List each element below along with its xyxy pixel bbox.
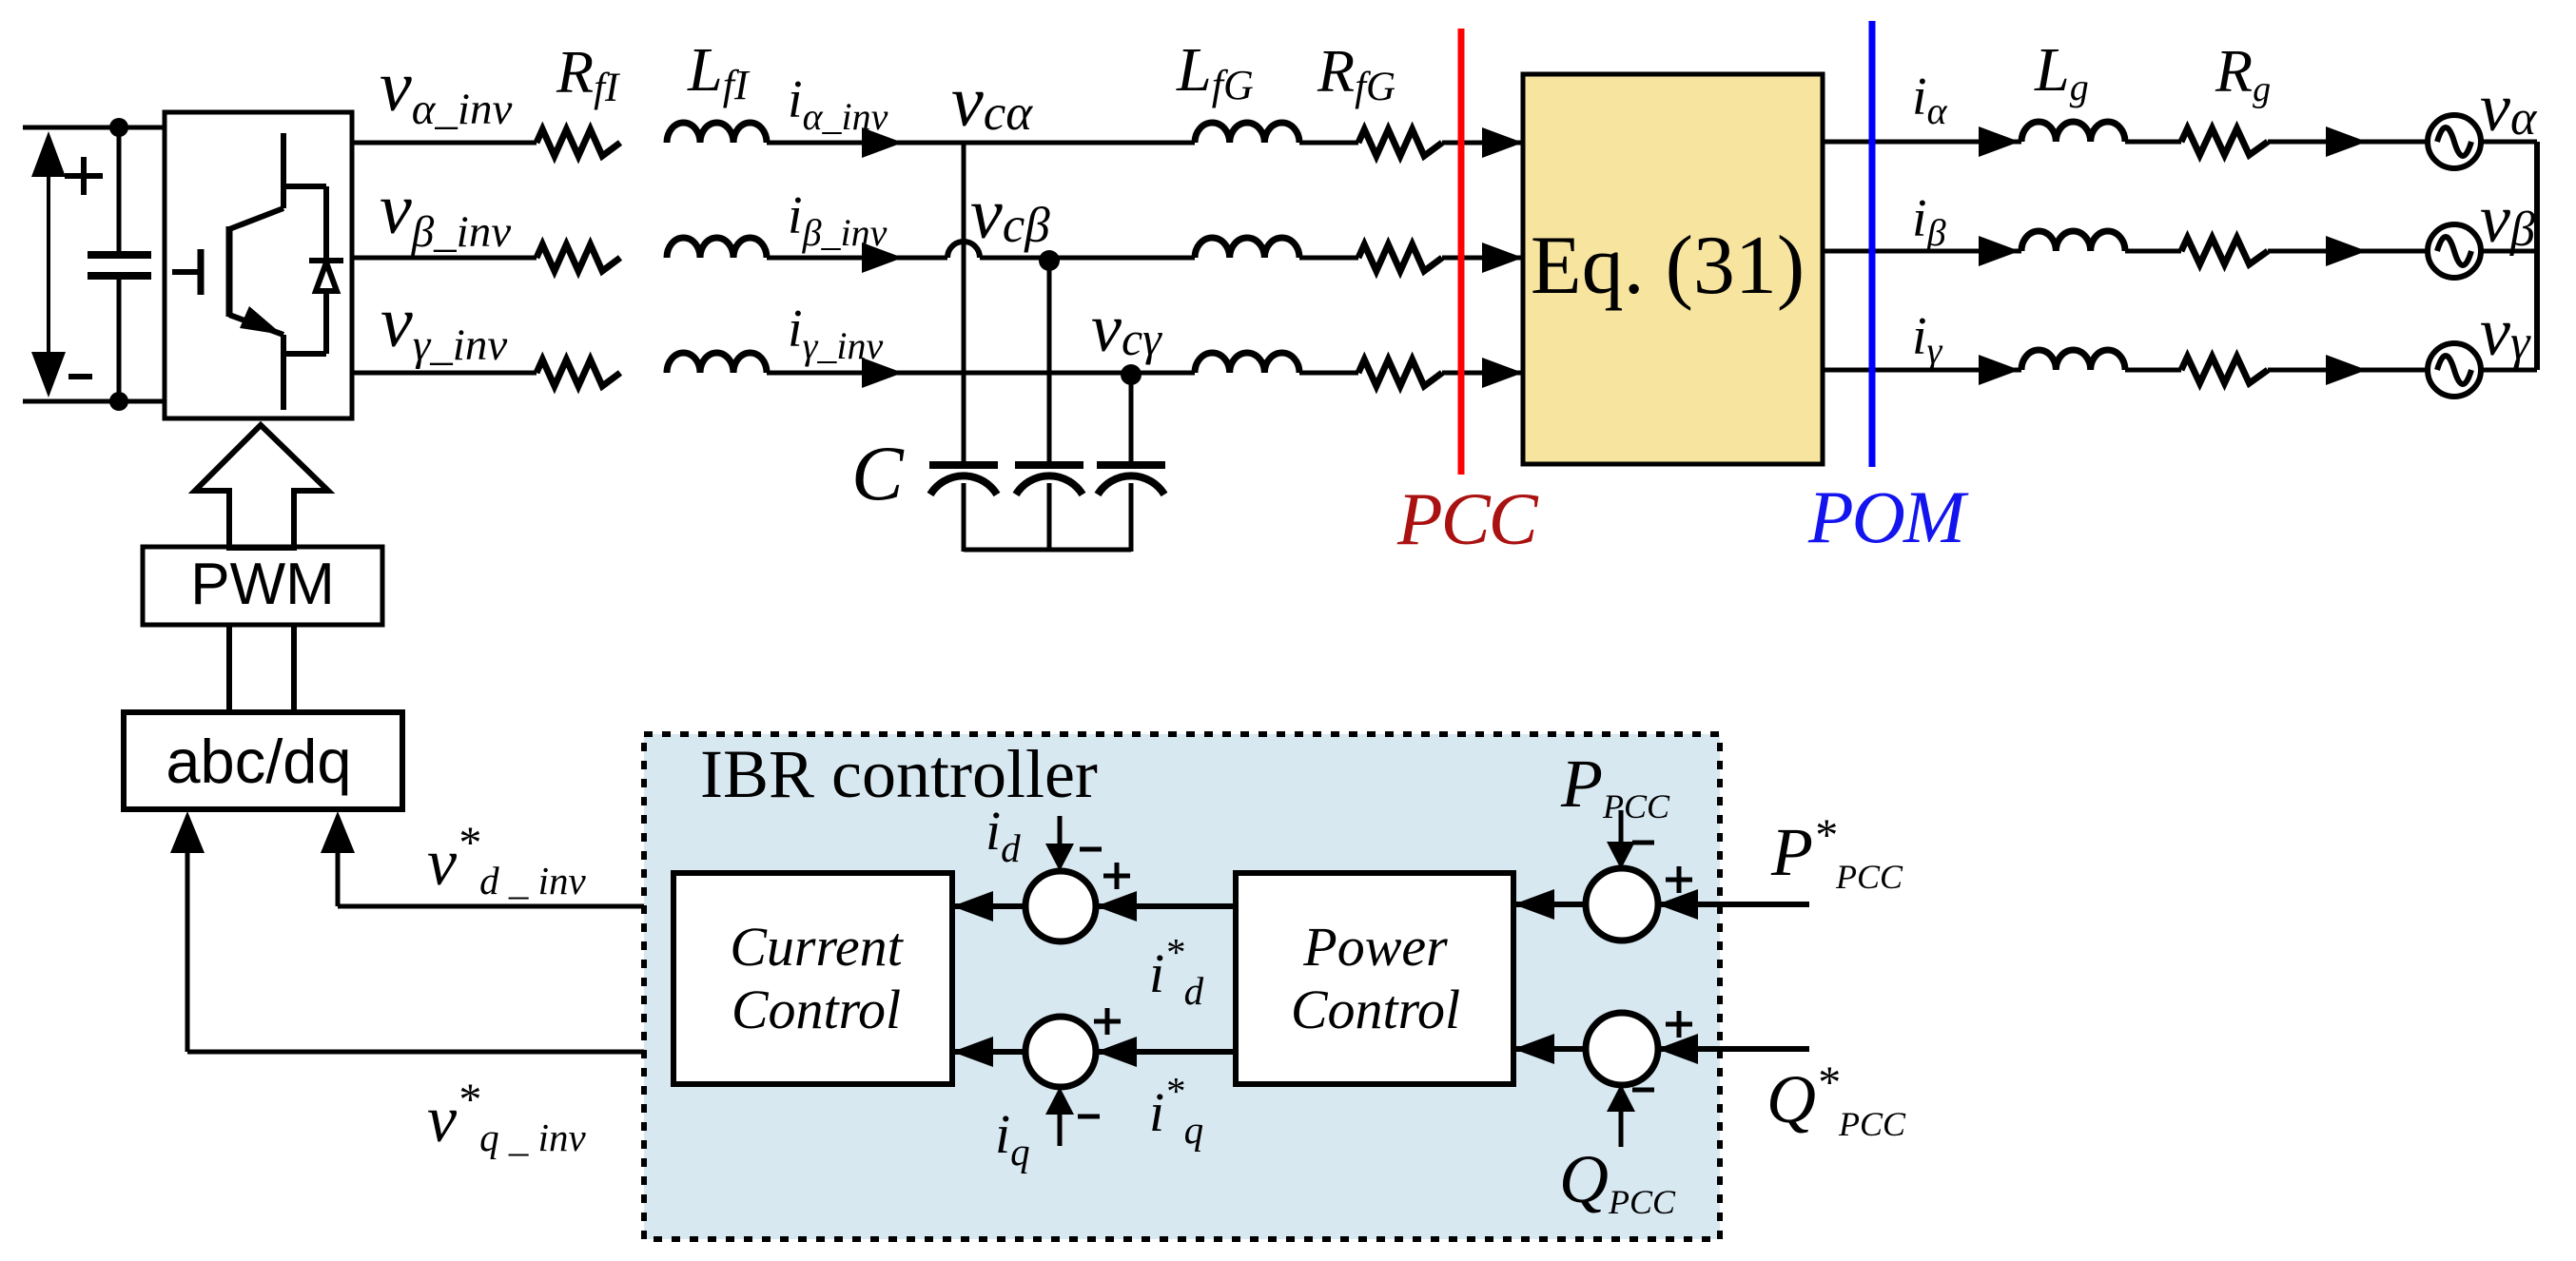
svg-text:Eq. (31): Eq. (31) — [1531, 220, 1805, 312]
block abc/dq — [124, 712, 402, 809]
svg-text:vcγ: vcγ — [1091, 290, 1162, 366]
wire: inverter output alpha — [352, 141, 537, 145]
svg-text:iγ: iγ — [1912, 307, 1943, 372]
svg-text:Rg: Rg — [2215, 37, 2271, 109]
wire: gamma to filter node — [767, 371, 1195, 376]
DC-link voltage measuring arrow — [47, 152, 50, 380]
svg-text:vβ_inv: vβ_inv — [380, 169, 511, 257]
svg-text:LfI: LfI — [687, 35, 751, 108]
wire: DC bus bottom — [23, 399, 165, 404]
inductor Lg (beta) — [2021, 231, 2125, 251]
svg-text:Lg: Lg — [2034, 35, 2089, 108]
label plus at sum3 — [1666, 878, 1692, 883]
svg-text:Q*PCC: Q*PCC — [1766, 1057, 1906, 1143]
svg-text:vcα: vcα — [951, 62, 1033, 142]
wire: sum4 to Power Control — [1513, 1046, 1587, 1052]
wire: alpha to filter node — [767, 141, 1195, 145]
wire: beta column down to capacitor — [1047, 258, 1052, 465]
wire: Q* reference into sum4 — [1657, 1046, 1809, 1052]
svg-text:vβ: vβ — [2480, 181, 2535, 257]
label: - polarity — [68, 374, 92, 379]
node v_c_gamma — [1121, 364, 1142, 385]
AC source v_alpha — [2428, 115, 2481, 168]
wire: DC bus top — [23, 126, 165, 130]
capacitor C (alpha) — [929, 461, 998, 469]
AC source v_gamma — [2428, 343, 2481, 397]
svg-text:iα: iα — [1912, 68, 1948, 132]
current arrow i_alpha_inv — [862, 127, 903, 158]
summing junction sum2 (q-axis) — [1025, 1017, 1096, 1087]
wire: P* reference into sum3 — [1657, 902, 1809, 907]
wire: inverter output gamma — [352, 371, 537, 376]
resistor RfI (gamma) — [537, 359, 620, 386]
arrow i_d into sum1 — [1058, 816, 1063, 846]
wire: beta RfG to Eq block — [1442, 256, 1523, 261]
svg-text:C: C — [851, 430, 905, 516]
svg-text:vα: vα — [2480, 69, 2538, 145]
arrow into abc/dq (q-axis) — [170, 811, 205, 853]
resistor Rg (alpha) — [2181, 128, 2268, 155]
svg-text:vγ: vγ — [2480, 294, 2531, 370]
wire: gamma column down to capacitor — [1129, 373, 1134, 465]
block PWM — [143, 547, 382, 625]
svg-text:iα_inv: iα_inv — [788, 70, 888, 138]
inductor LfI (beta) — [667, 238, 767, 258]
block Power Control — [1236, 873, 1513, 1084]
wire: inverter output beta — [352, 256, 537, 261]
wire: beta with hop over alpha column — [767, 256, 947, 261]
arrow Q_PCC into sum4 — [1619, 1111, 1624, 1147]
transistor Q1 emitter with arrow — [229, 315, 283, 335]
PCC measurement line (red) — [1458, 29, 1465, 475]
inductor LfG (alpha) — [1195, 123, 1299, 143]
wire: alpha RfG to Eq block — [1442, 141, 1523, 145]
summing junction sum3 (P) — [1586, 868, 1658, 941]
svg-text:abc/dq: abc/dq — [166, 727, 351, 796]
wire: alpha LfG to RfG — [1299, 141, 1358, 145]
svg-text:Current: Current — [730, 916, 904, 978]
svg-text:P*PCC: P*PCC — [1770, 810, 1903, 896]
capacitor C (beta) — [1015, 461, 1083, 469]
svg-text:Control: Control — [732, 979, 901, 1040]
wire: Lg to Rg (alpha) — [2125, 140, 2181, 145]
wire: grid right bus — [2534, 142, 2540, 370]
open shaft abc/dq to PWM — [226, 625, 232, 712]
label: + polarity — [65, 173, 103, 179]
node: DC bus top junction — [109, 118, 128, 137]
resistor RfG (gamma) — [1358, 359, 1442, 386]
wire: Rg to source (alpha) — [2268, 140, 2428, 145]
wire: gamma LfG to RfG — [1299, 371, 1358, 376]
block: Eq. (31) — [1523, 74, 1823, 464]
svg-text:PWM: PWM — [190, 552, 335, 617]
IBR controller dashed box — [644, 734, 1720, 1239]
svg-text:v*q _ inv: v*q _ inv — [427, 1075, 586, 1159]
svg-text:iβ_inv: iβ_inv — [788, 186, 888, 254]
summing junction sum1 (d-axis) — [1025, 871, 1096, 941]
arrow into Eq block (alpha) — [1482, 127, 1523, 158]
current arrow i_alpha — [1979, 126, 2020, 157]
node v_c_beta — [1039, 250, 1060, 271]
arrow into Eq block (beta) — [1482, 242, 1523, 273]
wire: source to bus (gamma) — [2481, 368, 2537, 373]
resistor RfI (beta) — [537, 244, 620, 271]
wire: sum2 to Current Control — [952, 1049, 1025, 1055]
wire: Rg to source (gamma) — [2268, 368, 2428, 373]
wire: source to bus (beta) — [2481, 249, 2537, 254]
wire: Power Control to sum1 — [1096, 903, 1236, 909]
resistor Rg (gamma) — [2181, 357, 2268, 383]
inductor LfI (alpha) — [667, 123, 767, 143]
wire: Eq block to grid (alpha) — [1823, 140, 2021, 145]
wire: v_q_inv feedback — [187, 1050, 673, 1055]
block Current Control — [673, 873, 952, 1084]
svg-text:POM: POM — [1807, 475, 1969, 558]
svg-text:iγ_inv: iγ_inv — [788, 300, 883, 367]
label plus at sum1 — [1103, 874, 1130, 879]
diode D1 (freewheeling) — [323, 186, 329, 354]
node: DC bus bottom junction — [109, 392, 128, 411]
arrow toward source (gamma) — [2326, 355, 2367, 385]
wire: capacitor bank bottom bus — [964, 548, 1131, 553]
svg-text:PCC: PCC — [1396, 477, 1539, 560]
summing junction sum4 (Q) — [1586, 1013, 1658, 1085]
wire: Eq block to grid (gamma) — [1823, 368, 2021, 373]
open arrow PWM to inverter — [195, 425, 328, 548]
arrow into abc/dq (d-axis) — [321, 811, 355, 853]
resistor RfG (alpha) — [1358, 129, 1442, 156]
inductor LfI (gamma) — [667, 353, 767, 373]
svg-text:v*d _ inv: v*d _ inv — [427, 818, 586, 902]
label plus at sum2 — [1094, 1019, 1121, 1024]
capacitor Cdc (DC-link) — [117, 127, 122, 255]
wire: Eq block to grid (beta) — [1823, 249, 2021, 254]
label plus at sum4 — [1666, 1022, 1692, 1027]
arrow toward source (alpha) — [2326, 126, 2367, 157]
svg-text:RfI: RfI — [556, 38, 620, 110]
wire: beta LfG to RfG — [1299, 256, 1358, 261]
inductor Lg (alpha) — [2021, 122, 2125, 142]
svg-text:IBR controller: IBR controller — [700, 736, 1098, 812]
wire: gamma RfG to Eq block — [1442, 371, 1523, 376]
inductor Lg (gamma) — [2021, 350, 2125, 370]
current arrow i_gamma — [1979, 355, 2020, 385]
svg-text:RfG: RfG — [1317, 37, 1395, 109]
resistor RfI (alpha) — [537, 129, 620, 156]
svg-text:vα_inv: vα_inv — [380, 47, 512, 134]
label minus at sum1 — [1080, 847, 1102, 852]
resistor RfG (beta) — [1358, 244, 1442, 271]
svg-text:LfG: LfG — [1176, 35, 1254, 108]
wire: Lg to Rg (beta) — [2125, 249, 2181, 254]
label minus at sum3 — [1632, 841, 1654, 845]
wire: Rg to source (beta) — [2268, 249, 2428, 254]
wire: source to bus (alpha) — [2481, 140, 2537, 145]
current arrow i_beta — [1979, 236, 2020, 266]
transistor Q1 (IGBT) collector — [281, 133, 286, 208]
svg-text:iβ: iβ — [1912, 189, 1946, 254]
wire: Power Control to sum2 — [1096, 1049, 1236, 1055]
current arrow i_beta_inv — [862, 242, 903, 273]
POM measurement line (blue) — [1869, 21, 1876, 467]
svg-text:vγ_inv: vγ_inv — [381, 282, 507, 370]
svg-text:Control: Control — [1291, 979, 1460, 1040]
arrow toward source (beta) — [2326, 236, 2367, 266]
wire: sum1 to Current Control — [952, 903, 1025, 909]
wire: v_d_inv feedback — [338, 904, 673, 909]
inductor LfG (gamma) — [1195, 353, 1299, 373]
wire: Lg to Rg (gamma) — [2125, 368, 2181, 373]
label minus at sum4 — [1632, 1088, 1654, 1093]
svg-text:Power: Power — [1302, 916, 1448, 978]
inductor LfG (beta) — [1195, 238, 1299, 258]
inverter U1 box — [165, 112, 352, 418]
capacitor C (gamma) — [1097, 461, 1165, 469]
wire: alpha column down to capacitor — [962, 143, 966, 465]
current arrow i_gamma_inv — [862, 358, 903, 388]
svg-text:vcβ: vcβ — [970, 174, 1050, 254]
arrow P_PCC into sum3 — [1619, 810, 1624, 844]
arrow i_q into sum2 — [1058, 1113, 1063, 1146]
arrow into Eq block (gamma) — [1482, 358, 1523, 388]
label minus at sum2 — [1078, 1115, 1100, 1119]
wire: sum3 to Power Control — [1513, 902, 1587, 907]
AC source v_beta — [2428, 224, 2481, 278]
transistor Q1 gate bar — [226, 226, 233, 317]
resistor Rg (beta) — [2181, 238, 2268, 264]
